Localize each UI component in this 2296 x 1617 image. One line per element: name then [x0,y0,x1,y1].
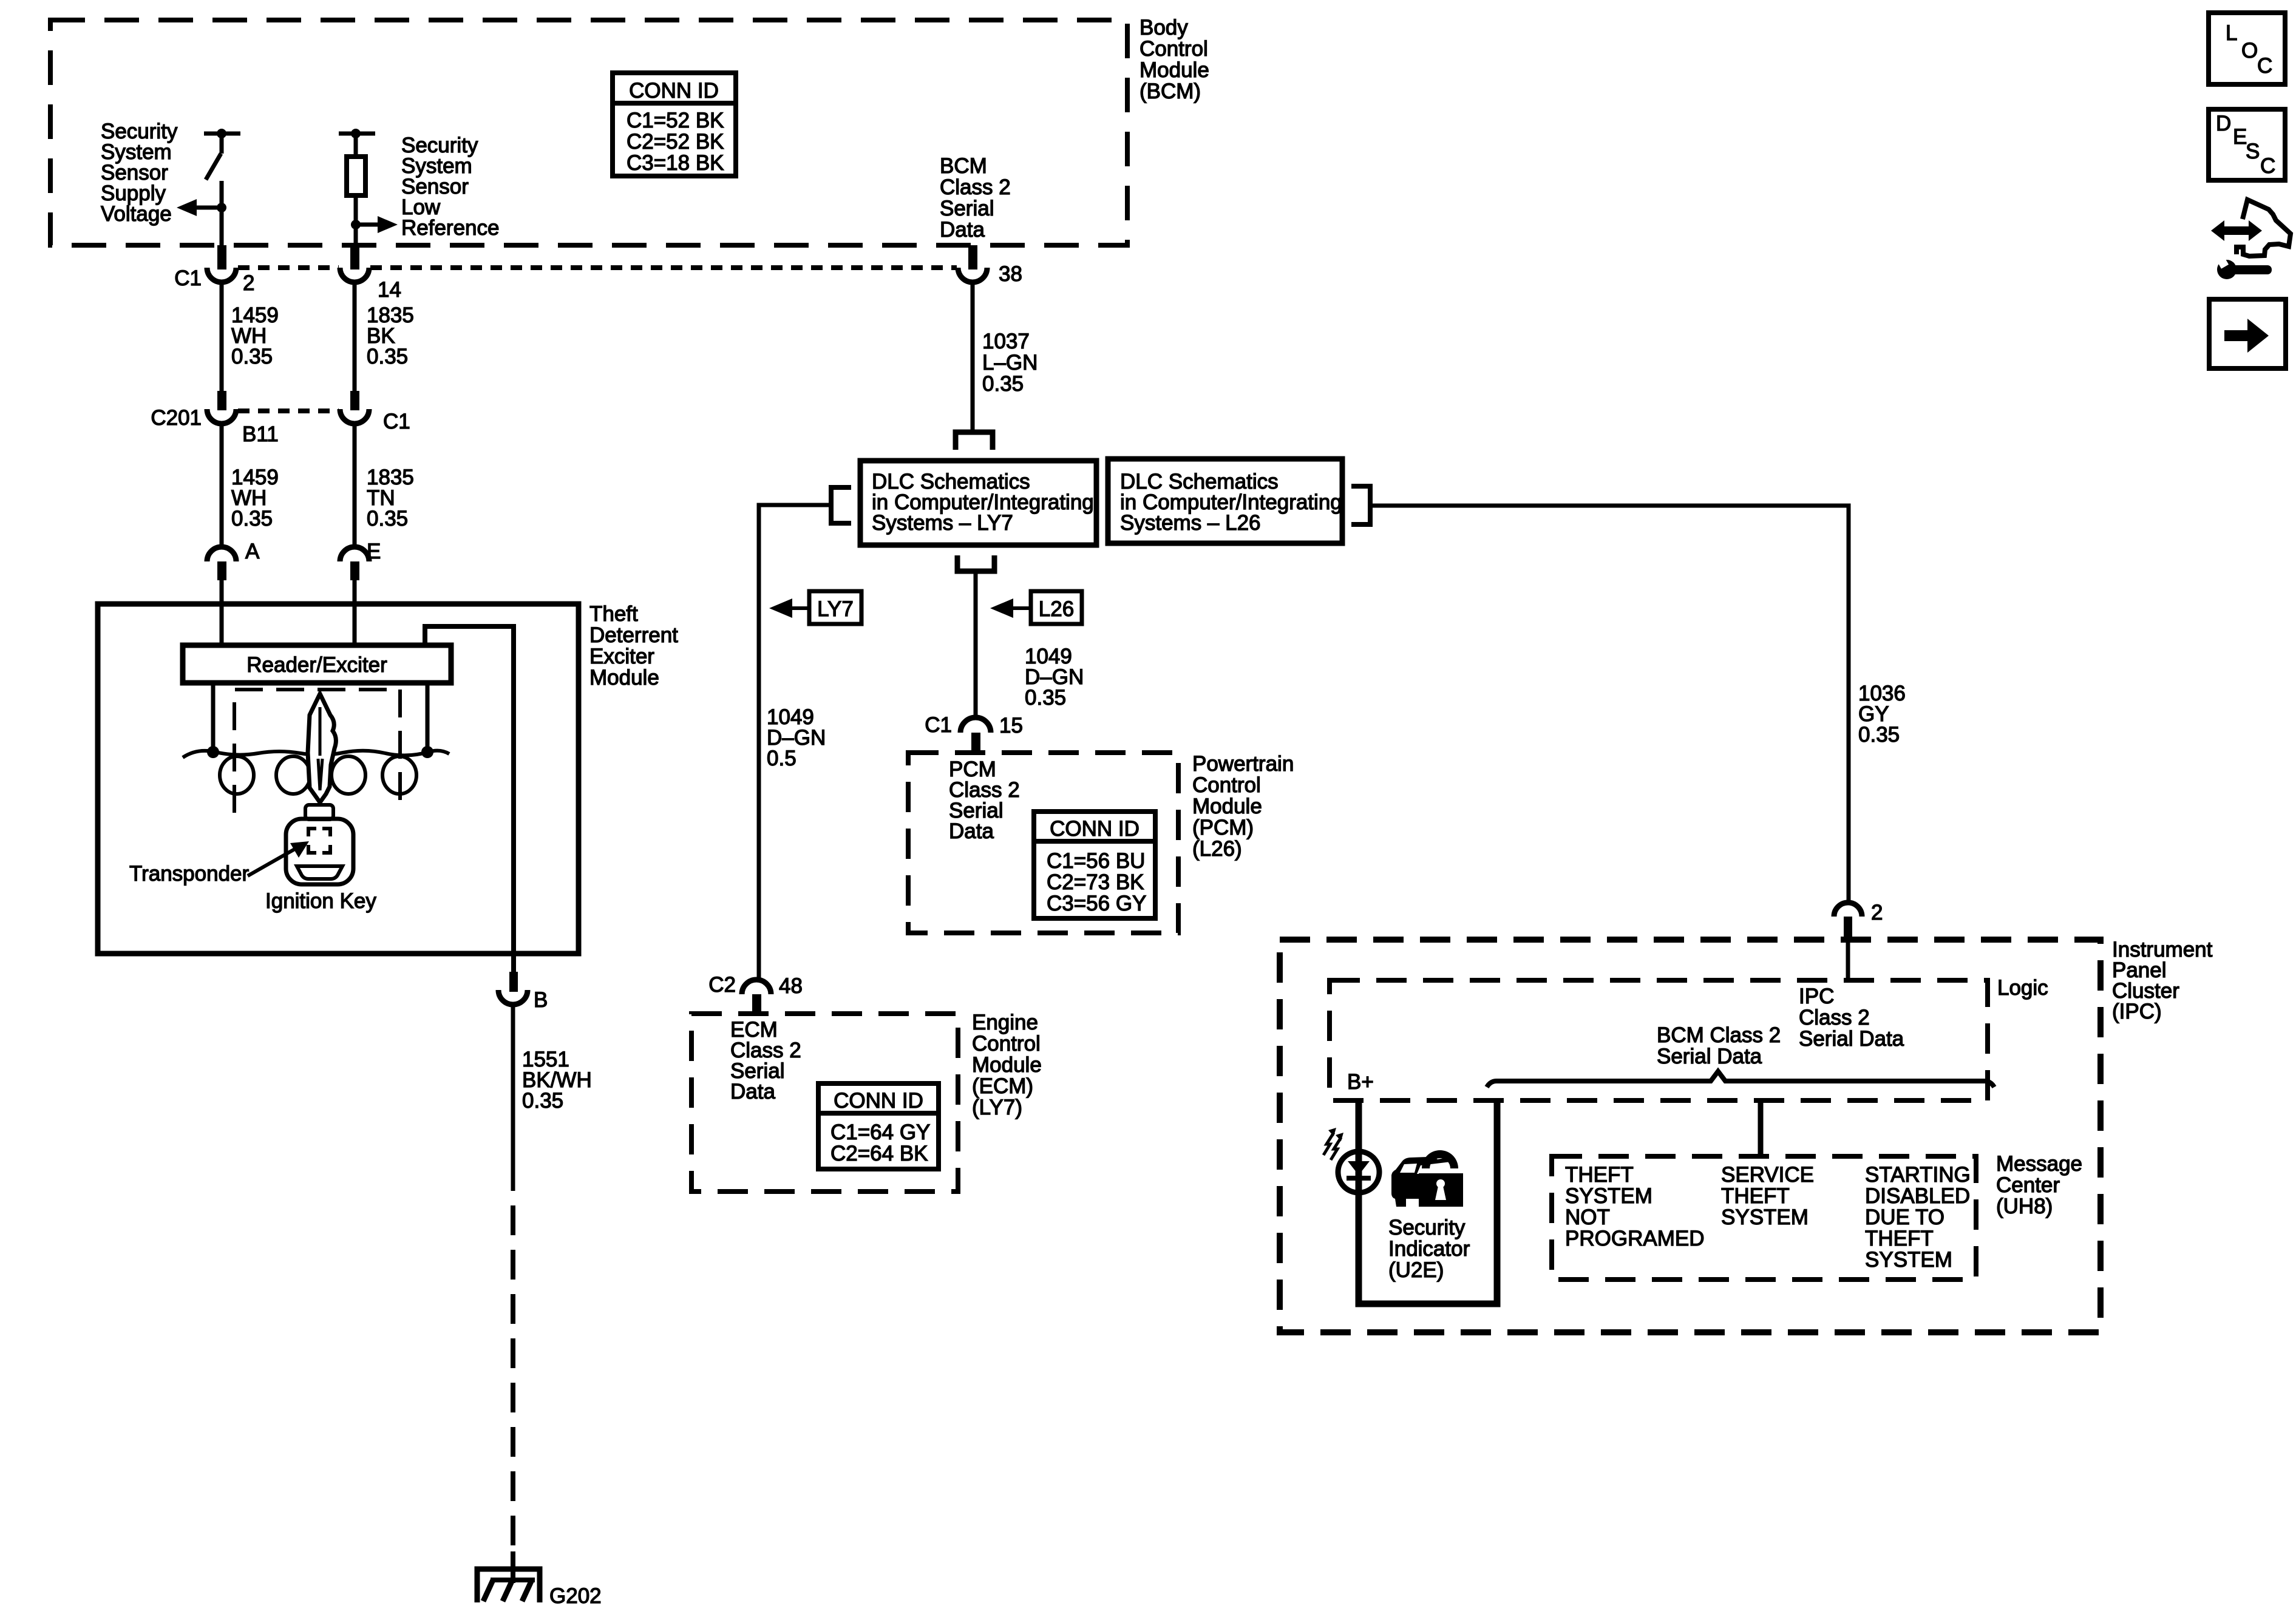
key grip slot [297,866,342,879]
svg-text:C1: C1 [174,266,202,290]
svg-text:2: 2 [243,271,254,295]
data link connector icon (car outline) [2237,200,2291,256]
data link double arrow [2211,220,2262,241]
svg-text:LY7: LY7 [817,597,854,621]
LED light arrows [1323,1128,1343,1160]
svg-text:L: L [2226,21,2237,45]
coil loop 2 [276,756,310,794]
svg-text:C1=56 BUC2=73 BKC3=56 GY: C1=56 BUC2=73 BKC3=56 GY [1047,849,1146,915]
svg-text:O: O [2241,39,2258,63]
left bracket of LY7 box [831,487,851,523]
wrench icon [2217,258,2272,279]
right bracket of L26 box [1351,486,1370,524]
IPC instrument panel cluster dashed box [1280,940,2101,1332]
wire into Logic box [1846,940,1850,981]
Message Center dashed box [1552,1156,1976,1280]
connector E [340,540,381,604]
svg-text:CONN ID: CONN ID [1050,817,1140,841]
wire 1037 L-GN 0.35 [973,280,1038,432]
svg-text:CONN ID: CONN ID [834,1089,923,1113]
wire to ground (dashed) [511,1205,515,1564]
key bow [286,819,353,884]
DLC Schematics L26 box [1108,459,1342,543]
security indicator circuit wire [1359,1102,1497,1304]
forward arrow box [2209,299,2286,368]
svg-text:S: S [2246,140,2260,163]
DLC Schematics LY7 box [860,461,1096,545]
ground G202 [477,1551,602,1608]
wire from LY7 bracket to ECM [759,505,831,980]
supply voltage arrow [177,199,226,216]
coil loop 3 [331,756,365,794]
resistor (sensor low reference) [339,129,375,245]
svg-text:C: C [2257,54,2272,78]
wire 1551 BK/WH 0.35 [513,1005,592,1191]
low reference arrow [351,216,398,233]
svg-text:E: E [2233,125,2247,149]
ignition key blade [308,694,336,802]
wire 1835 BK 0.35 [355,280,414,392]
DESC reference box [2209,109,2285,180]
svg-text:B: B [534,988,548,1012]
svg-text:C2: C2 [708,973,736,997]
svg-text:C1=52 BKC2=52 BKC3=18 BK: C1=52 BKC2=52 BKC3=18 BK [627,109,724,175]
connector pin 2 (IPC) [1834,901,1883,940]
svg-text:A: A [245,540,260,563]
PCM powertrain control module dashed box [908,753,1178,933]
wire from LY7 lower bracket to PCM [974,571,978,717]
svg-text:B+: B+ [1347,1070,1374,1094]
BCM body control module dashed box [50,20,1127,245]
LY7 reference flag [769,591,861,624]
BCM connector face dotted line [238,265,339,270]
svg-text:14: 14 [378,278,401,302]
car with padlock icon [1391,1150,1463,1207]
CONN ID table (BCM) [613,73,736,176]
junction dot right [421,746,433,758]
bracket below DLC LY7 box [957,555,994,571]
wire 1459 WH 0.35 (upper) [222,280,279,392]
svg-text:C1: C1 [925,713,952,737]
coil core wavy line [183,751,449,758]
wire Reader/Exciter to connector B [425,626,514,972]
transponder corner marks [308,829,330,853]
brace [1487,1071,1994,1087]
transponder pointer arrow [248,841,309,876]
svg-text:L26: L26 [1039,597,1074,621]
coil loop 1 [220,756,254,794]
ECM engine control module dashed box [691,1014,958,1192]
connector C1 pin 14 [340,245,401,302]
wire from L26 bracket to IPC [1370,506,1849,903]
svg-text:D: D [2216,112,2231,135]
svg-text:G202: G202 [549,1584,602,1608]
svg-text:48: 48 [779,974,803,998]
Logic dashed box [1330,980,1988,1100]
LOC reference box [2209,13,2285,84]
svg-text:Ignition Key: Ignition Key [265,889,376,913]
connector C1 pin 15 [925,713,1023,753]
connector pin 38 [958,245,1022,286]
connector B [498,972,548,1012]
switch (security sensor supply) [204,129,240,245]
wire A into Reader/Exciter [220,604,224,645]
coil loop 4 [382,756,416,794]
connector C201 B11 [151,391,278,446]
connector C2 pin 48 [708,973,803,1014]
svg-text:SecuritySystemSensorSupplyVolt: SecuritySystemSensorSupplyVoltage [101,120,178,226]
svg-text:15: 15 [999,714,1023,737]
coil feed wires [211,683,216,751]
key collar [305,805,333,819]
in-line connector C201 dotted line [238,408,339,413]
Reader/Exciter box [183,645,451,683]
bracket above DLC LY7 box [956,432,993,450]
Theft Deterrent Exciter Module box [98,604,579,954]
svg-text:C1: C1 [383,410,410,433]
svg-text:C1=64 GYC2=64 BK: C1=64 GYC2=64 BK [830,1120,930,1165]
svg-text:2: 2 [1871,901,1883,924]
svg-text:E: E [367,540,381,563]
connector C1 pin 2 [174,245,254,295]
svg-text:38: 38 [999,262,1022,286]
connector A [207,540,260,604]
svg-text:Transponder: Transponder [129,862,249,886]
junction dot left [207,746,219,758]
svg-text:C201: C201 [151,406,202,430]
CONN ID table (ECM) [818,1083,939,1169]
svg-text:B11: B11 [242,422,279,446]
wire 1835 TN 0.35 [355,424,414,546]
L26 reference flag [990,591,1082,624]
LED security indicator [1338,1151,1379,1193]
wire E into Reader/Exciter [353,604,357,645]
svg-text:Logic: Logic [1997,976,2048,1000]
connector C1 (right of C201) [340,391,410,433]
wire brace to message center [1758,1102,1764,1158]
svg-text:CONN ID: CONN ID [629,79,719,103]
wire 1459 WH 0.35 (lower) [222,424,279,546]
svg-text:Reader/Exciter: Reader/Exciter [246,653,387,677]
lock cylinder dashed outline [234,690,400,813]
svg-text:C: C [2260,154,2275,178]
CONN ID table (PCM) [1034,812,1155,918]
